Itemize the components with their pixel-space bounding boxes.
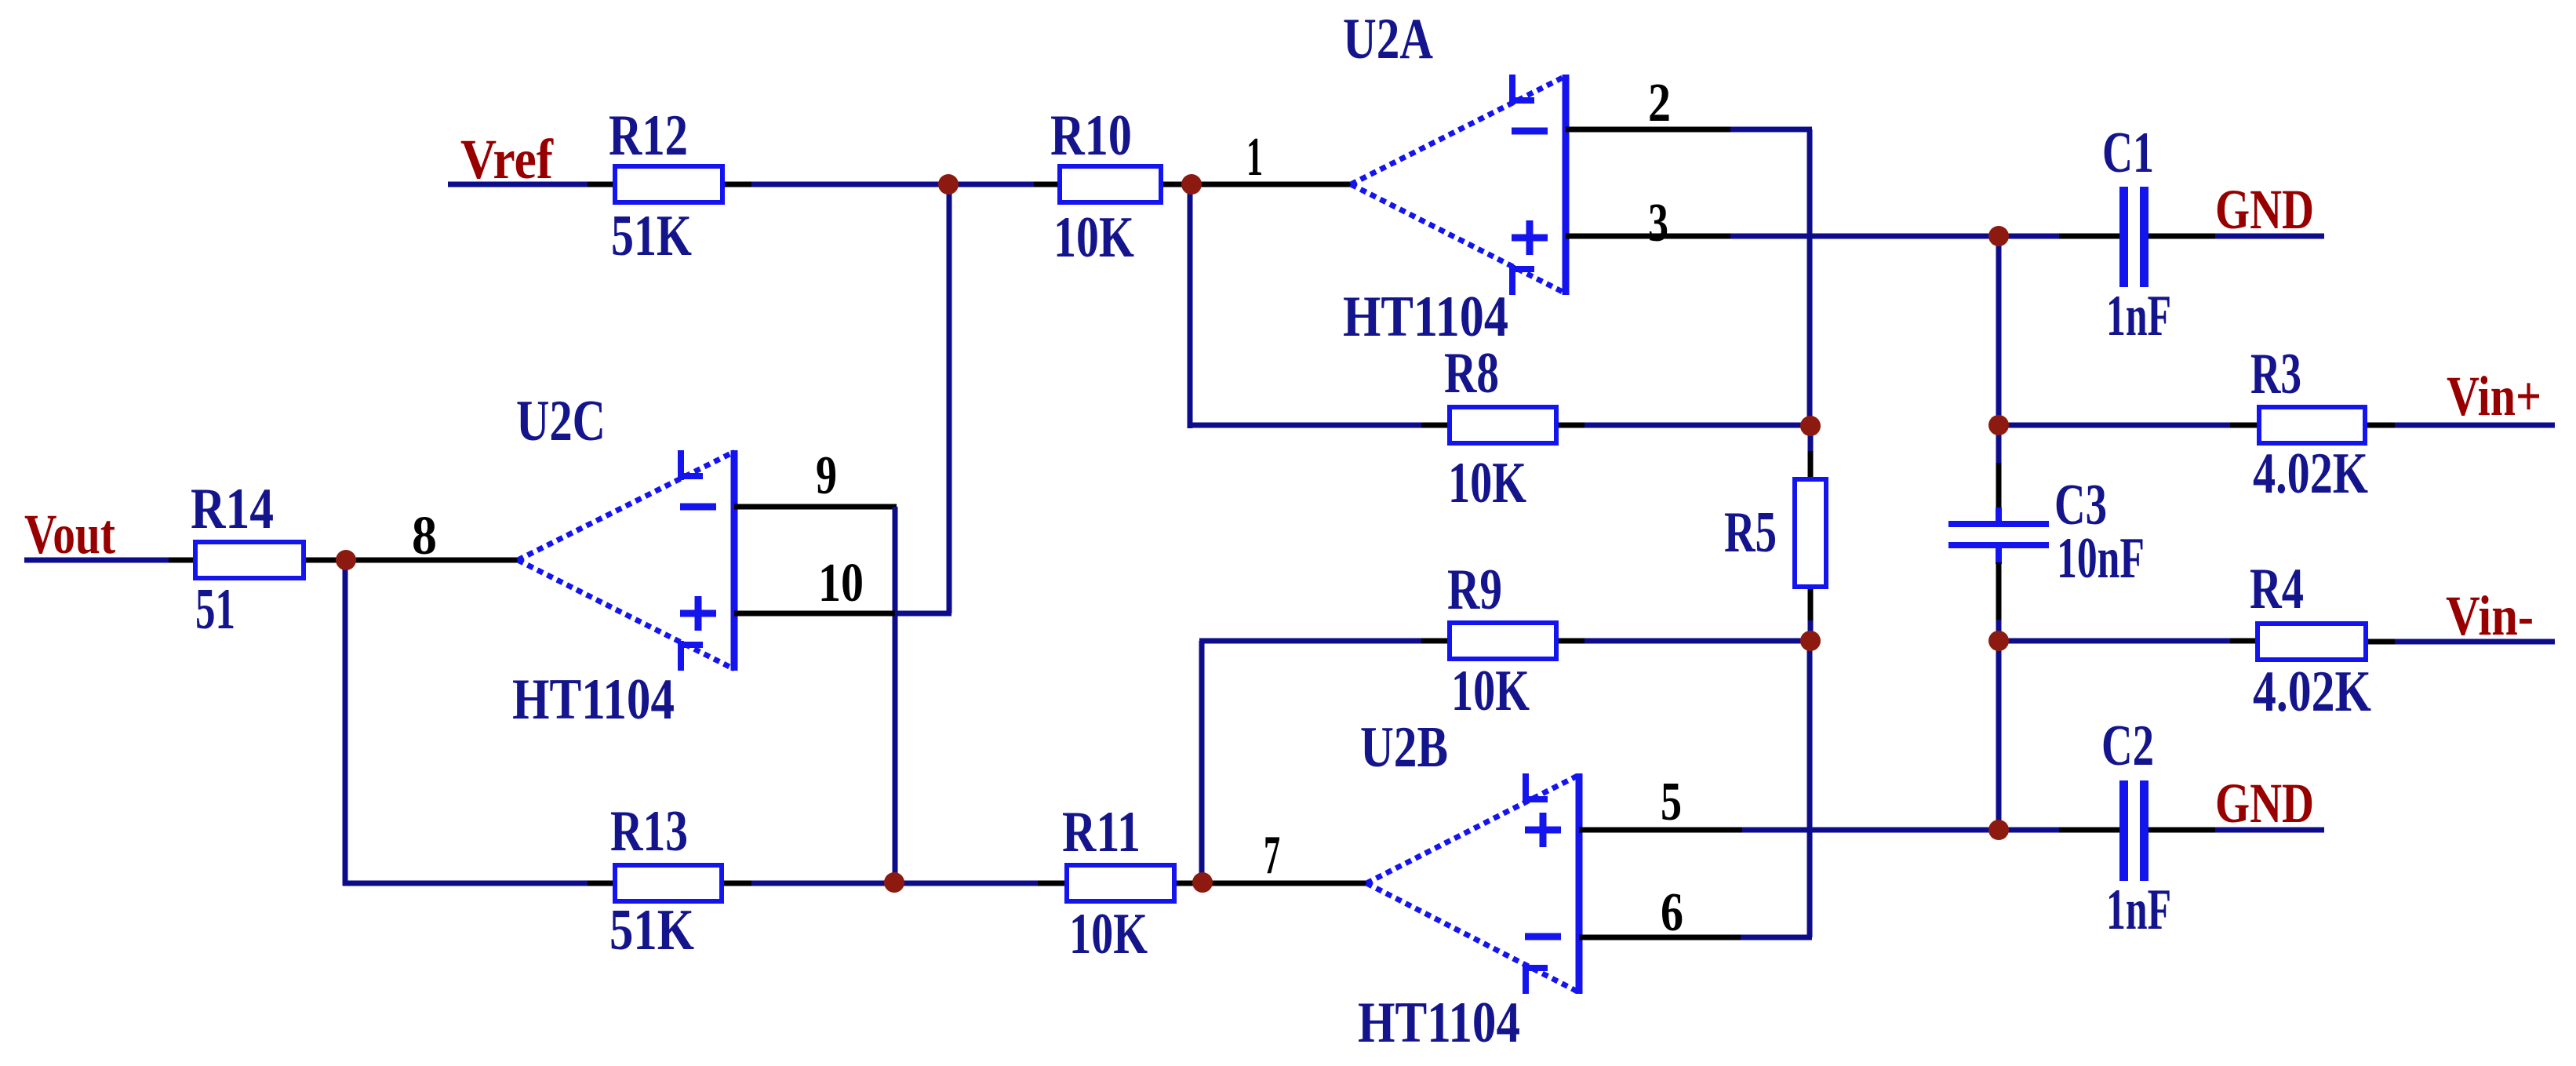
wire C1 to GND [2215,234,2324,239]
svg-text:10K: 10K [1451,659,1530,723]
svg-text:51K: 51K [611,204,692,268]
svg-text:5: 5 [1661,772,1682,832]
svg-text:2: 2 [1648,73,1671,133]
resistor R11 [1067,865,1174,901]
wire pin2 to corner [1730,127,1812,133]
lead R5 top [1808,451,1814,477]
svg-text:R4: R4 [2250,557,2304,621]
wire node C to R11 [894,881,1038,886]
svg-text:R8: R8 [1444,341,1499,406]
wire pin9 corner down to node C [893,507,898,882]
svg-text:R5: R5 [1724,500,1777,565]
wire R9 to R5 bottom node [1585,639,1810,644]
pin 2 wire [1566,127,1730,133]
wire R8 to R5 top node [1585,423,1810,428]
svg-text:1: 1 [1246,127,1263,187]
svg-text:10nF: 10nF [2057,526,2145,591]
lead C2 left [2059,828,2119,833]
resistor R10 [1060,166,1161,202]
svg-text:R9: R9 [1447,558,1502,622]
svg-text:3: 3 [1648,193,1668,253]
wire Vout node down [343,560,348,886]
wire node B down [1188,184,1193,428]
lead R3 right [2367,423,2395,428]
lead C1 right [2148,234,2215,239]
lead R10 left [1034,182,1057,187]
lead R13 left [588,881,613,886]
svg-text:4.02K: 4.02K [2253,442,2368,506]
svg-text:HT1104: HT1104 [512,668,675,732]
capacitor C3 [1948,508,2049,564]
junction R4/C3 bottom node [1988,631,2009,651]
svg-text:GND: GND [2215,772,2314,835]
wire corner to R8 [1188,423,1421,428]
resistor R9 [1450,623,1556,659]
wire pin3 to C1 node [1730,234,1999,239]
svg-text:GND: GND [2215,178,2314,241]
wire Vout corner to R13 [343,881,588,886]
svg-text:R11: R11 [1062,800,1141,864]
lead R3 left [2230,423,2257,428]
svg-text:HT1104: HT1104 [1358,991,1520,1055]
junction Vout node [336,550,356,570]
lead R9 left [1421,639,1447,644]
svg-text:51: 51 [195,577,235,642]
pin 6 wire [1579,935,1741,940]
svg-text:1nF: 1nF [2106,878,2171,942]
resistor R13 [615,865,722,901]
pin 8 wire to U2C [346,558,518,563]
pin 3 wire [1566,234,1730,239]
lead R10 right [1163,182,1192,187]
svg-text:U2B: U2B [1360,715,1448,780]
svg-text:4.02K: 4.02K [2253,660,2371,724]
pin 9 wire [734,504,897,510]
lead R5 bottom [1808,589,1814,620]
op-amp U2C [518,450,734,671]
wire pin6 corner up to R5 bottom node [1807,641,1813,937]
wire pin6 to corner [1741,935,1812,940]
svg-text:10K: 10K [1448,451,1526,515]
op-amp U2A [1351,75,1566,295]
svg-text:8: 8 [412,506,437,566]
lead R11 right [1177,881,1202,886]
svg-text:R10: R10 [1050,104,1132,168]
lead R9 right [1559,639,1585,644]
wire R13 to node C [751,881,894,886]
wire pin5 to C2 node [1742,828,1999,833]
wire R9 corner to R9 [1199,639,1421,644]
wire R3 to Vin+ [2395,423,2555,428]
lead R8 left [1421,423,1447,428]
junction R5 bottom/R9/pin6 net [1800,631,1821,651]
wire node A to R10 [948,182,1034,187]
lead C3 top [1996,463,2002,508]
junction pin3/C1/C3 node [1988,226,2009,246]
wire Vout to R14 [24,558,169,563]
lead C3 bottom [1996,562,2002,620]
junction C2/pin5 node [1988,820,2009,840]
wire C1 node down to R3 node [1996,236,2002,425]
svg-text:6: 6 [1661,882,1683,943]
wire C3 to R4 node [1996,620,2002,641]
pin 1 wire to U2A [1192,182,1351,187]
junction R8/R5 top/pin2 net [1800,416,1821,436]
svg-text:C2: C2 [2101,714,2154,778]
capacitor C1 [2119,187,2148,287]
wire pin2 corner down to R5 top node [1807,129,1813,426]
svg-text:9: 9 [816,446,837,506]
resistor R14 [195,542,304,578]
svg-text:1nF: 1nF [2106,284,2171,348]
svg-text:Vin-: Vin- [2446,584,2534,647]
junction node B (R10/U2A pin1/R8) [1181,174,1202,195]
lead R12 left [588,182,613,187]
svg-text:R13: R13 [610,799,688,864]
lead R13 right [724,881,751,886]
wire R9 corner vertical down to node D [1199,641,1205,882]
svg-text:R14: R14 [191,477,274,541]
junction node D (R11/U2B pin7/R9 net) [1192,872,1213,893]
wire R3 node to R3 [1999,423,2230,428]
wire C2 to GND [2215,828,2324,833]
svg-text:10: 10 [818,553,864,613]
wire R3 node down to C3 [1996,425,2002,463]
wire R12 to node A [751,182,948,187]
lead R14 left [169,558,193,563]
lead R14 right [306,558,346,563]
junction node A (R12/R10/U2C pin10 net) [938,174,959,195]
svg-text:HT1104: HT1104 [1343,285,1508,349]
svg-text:R3: R3 [2250,342,2301,406]
wire R4 node down to C2 node [1996,641,2002,830]
lead C1 left [2059,234,2119,239]
wire R5 to bottom node [1808,620,1814,641]
junction node C (R13/R11/pin9 net) [884,872,904,893]
resistor R4 [2258,624,2366,660]
lead C2 right [2148,828,2215,833]
wire R4 node to R4 [1999,639,2230,644]
svg-text:10K: 10K [1069,902,1148,966]
pin 5 wire [1579,828,1742,833]
wire C2 node to C2 [1999,828,2059,833]
lead R4 left [2230,639,2255,644]
svg-text:R12: R12 [609,104,688,168]
svg-text:51K: 51K [609,898,694,962]
wire pin10 to corner [895,611,951,617]
svg-text:10K: 10K [1053,206,1134,270]
lead R11 left [1038,881,1064,886]
svg-text:7: 7 [1264,825,1280,886]
capacitor C2 [2119,780,2148,881]
svg-text:Vin+: Vin+ [2447,365,2541,427]
resistor R12 [615,166,722,202]
svg-text:U2C: U2C [516,389,606,453]
wire pin10 corner up to node A [947,184,952,613]
resistor R3 [2259,407,2365,443]
lead R8 right [1559,423,1585,428]
lead R4 right [2368,639,2395,645]
lead R12 right [725,182,751,187]
op-amp U2B [1366,773,1579,994]
svg-text:Vref: Vref [460,128,554,191]
wire R4 to Vin- [2395,639,2555,645]
resistor R5 [1795,479,1826,587]
svg-text:Vout: Vout [24,503,115,566]
svg-text:U2A: U2A [1343,7,1433,71]
pin 7 wire to U2B [1202,881,1366,886]
wire Vref to R12 [448,182,588,187]
junction R3/C3 top node [1988,415,2009,435]
svg-text:C1: C1 [2102,121,2154,185]
pin 10 wire [734,611,895,617]
wire R5 top node down [1808,426,1814,451]
resistor R8 [1450,407,1556,443]
wire C1 node to C1 [1999,234,2059,239]
